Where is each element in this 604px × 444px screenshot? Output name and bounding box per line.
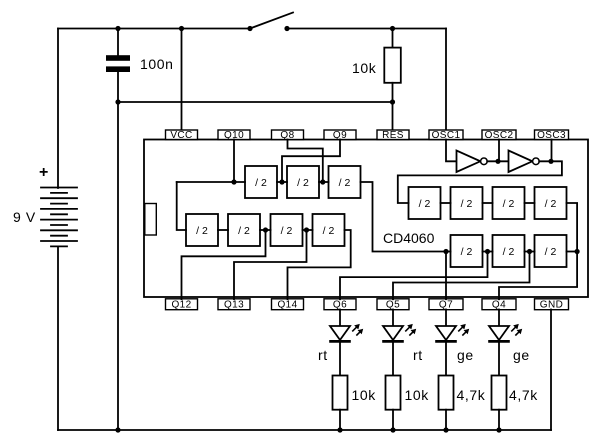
wire right junction down to Q4: [499, 252, 577, 300]
svg-text:Q12: Q12: [171, 300, 191, 311]
pin Q14: [272, 299, 304, 311]
wire Q5 pin to LED D2: [392, 310, 394, 327]
battery BT1: [41, 188, 77, 247]
svg-text:/ 2: / 2: [255, 177, 267, 189]
svg-text:/ 2: / 2: [196, 225, 208, 237]
divider stage E1: [409, 187, 441, 219]
node: junction M3/M4 to Q13: [304, 227, 309, 232]
divider stage T2: [287, 166, 319, 198]
svg-text:10k: 10k: [352, 387, 377, 403]
node: junction D3 column rail: [443, 427, 448, 432]
IC U1 CD4060 body: [144, 140, 588, 298]
wire M4 output to Q14: [288, 230, 351, 299]
wire R1 bottom to RES pin: [392, 83, 394, 130]
wire top rail left segment: [58, 28, 250, 30]
wire M3-M4 link: [303, 229, 313, 231]
wire rail corner down to OSC1: [445, 29, 447, 131]
svg-text:VCC: VCC: [170, 130, 192, 141]
pin RES: [377, 130, 409, 141]
node: junction D2 column rail: [390, 427, 395, 432]
resistor R4 4,7k: [439, 376, 454, 410]
pin Q9: [324, 130, 356, 141]
svg-text:/ 2: / 2: [503, 198, 515, 210]
wire E1-E2 link: [441, 202, 451, 204]
svg-text:/ 2: / 2: [419, 198, 431, 210]
pin Q4: [482, 299, 516, 311]
svg-text:100n: 100n: [140, 56, 174, 72]
wire LED D1 to R2: [339, 341, 341, 375]
wire E4 output down right side: [567, 203, 578, 252]
svg-text:Q14: Q14: [277, 300, 297, 311]
wire R3 to bottom rail: [392, 410, 394, 430]
divider stage M2: [228, 214, 260, 246]
svg-text:/ 2: / 2: [238, 225, 250, 237]
wire R5 to bottom rail: [498, 410, 500, 430]
pin VCC: [166, 130, 198, 141]
wire R2 to bottom rail: [339, 410, 341, 430]
node: junction Q10/T1: [231, 179, 236, 184]
resistor R3 10k: [386, 376, 401, 410]
wire junction F1/F2 down to Q6: [340, 252, 488, 300]
svg-text:rt: rt: [413, 347, 423, 363]
wire inverter output to feedback: [398, 161, 562, 203]
wire junction F2/F3 down to Q5: [393, 252, 530, 300]
node: junction ground rail: [115, 427, 120, 432]
divider stage T3: [329, 166, 361, 198]
svg-text:4,7k: 4,7k: [509, 387, 538, 403]
wire Q6 pin to LED D1: [339, 310, 341, 327]
svg-text:ge: ge: [513, 347, 530, 363]
wire left outer vertical (battery bottom lead): [57, 247, 59, 431]
svg-text:ge: ge: [457, 347, 474, 363]
wire junction M2/M3 down to Q12: [182, 230, 266, 299]
pin Q6: [324, 299, 356, 311]
node: junction T1/T2 to Q9: [279, 179, 284, 184]
svg-text:/ 2: / 2: [339, 177, 351, 189]
wire OSC2 drop: [498, 140, 500, 162]
pin Q7: [429, 299, 463, 311]
divider stage M4: [313, 214, 345, 246]
divider stage F3: [535, 235, 567, 267]
svg-text:/ 2: / 2: [461, 246, 473, 258]
svg-text:10k: 10k: [405, 387, 430, 403]
resistor R5 4,7k: [492, 376, 507, 410]
node: junction F1 input to Q7: [443, 249, 448, 254]
wire T2-T3 link: [319, 181, 329, 183]
pin OSC2: [482, 130, 516, 141]
svg-text:/ 2: / 2: [297, 177, 309, 189]
pin OSC1: [429, 130, 463, 141]
wire E3-E4 link: [525, 202, 535, 204]
divider stage T1: [245, 166, 277, 198]
divider stage M1: [186, 214, 218, 246]
wire Q7 pin to LED D3: [445, 310, 447, 327]
divider stage E4: [535, 187, 567, 219]
pin Q8: [272, 130, 304, 141]
node: junction F1/F2 to Q6: [485, 249, 490, 254]
node: junction right side: [575, 249, 580, 254]
svg-text:/ 2: / 2: [461, 198, 473, 210]
svg-text:Q13: Q13: [224, 300, 244, 311]
wire T3 output down to F row: [361, 182, 451, 252]
wire left outer vertical (battery top lead): [57, 29, 59, 189]
node: junction OSC2: [495, 159, 500, 164]
node: junction 10k on rail: [390, 26, 395, 31]
resistor R2 10k: [333, 376, 348, 410]
LED D2: [382, 324, 416, 342]
wire E2-E3 link: [483, 202, 493, 204]
svg-text:4,7k: 4,7k: [457, 387, 486, 403]
node: junction D1 column rail: [337, 427, 342, 432]
wire Q7 drop: [445, 252, 447, 300]
wire bottom rail: [58, 429, 551, 431]
wire T1-T2 link: [277, 181, 287, 183]
wire Q8 jog to T2/T3 junction: [288, 140, 323, 183]
wire Q10 drop to T1 input: [233, 140, 235, 183]
divider stage M3: [271, 214, 303, 246]
svg-text:/ 2: / 2: [281, 225, 293, 237]
inverter U1B: [509, 151, 540, 173]
svg-text:/ 2: / 2: [545, 246, 557, 258]
pin Q10: [218, 130, 250, 141]
pin Q13: [218, 299, 250, 311]
wire OSC1 to inverter input: [446, 140, 457, 162]
node: junction F2/F3 to Q5: [527, 249, 532, 254]
LED D3: [435, 324, 469, 342]
wire VCC drop: [181, 29, 183, 131]
pin Q5: [377, 299, 409, 311]
wire T1 input horizontal: [177, 181, 245, 183]
node: junction R1/RES/mid line: [390, 99, 395, 104]
divider stage F1: [451, 235, 483, 267]
wire mid horizontal to RES: [118, 101, 393, 103]
resistor R1 10k: [384, 48, 401, 83]
svg-text:/ 2: / 2: [545, 198, 557, 210]
svg-text:+: +: [39, 164, 49, 181]
svg-text:/ 2: / 2: [503, 246, 515, 258]
wire F3 output link: [567, 251, 578, 253]
svg-text:rt: rt: [318, 347, 328, 363]
LED D1: [329, 324, 363, 342]
node: junction cap bottom: [115, 99, 120, 104]
LED D4: [488, 324, 522, 342]
divider stage E3: [493, 187, 525, 219]
switch S1: [247, 13, 293, 32]
svg-text:10k: 10k: [352, 60, 377, 76]
oscillator element box on left edge: [145, 204, 157, 236]
wire F1-F2 link: [483, 251, 493, 253]
wire junction M3/M4 down to Q13: [234, 230, 307, 299]
wire GND pin to bottom rail: [550, 310, 552, 431]
pin Q12: [166, 299, 198, 311]
divider stage F2: [493, 235, 525, 267]
node: junction VCC on rail: [179, 26, 184, 31]
node: junction OSC3: [548, 159, 553, 164]
wire R4 to bottom rail: [445, 410, 447, 430]
svg-text:9 V: 9 V: [13, 209, 36, 225]
wire capacitor bottom / ground vertical: [117, 72, 119, 430]
svg-text:CD4060: CD4060: [383, 230, 435, 246]
inverter U1A: [457, 151, 488, 173]
wire OSC3 drop: [551, 140, 553, 162]
pin OSC3: [535, 130, 569, 141]
node: junction D4 column rail: [496, 427, 501, 432]
wire LED D3 to R4: [445, 341, 447, 375]
wire M1-M2 link: [218, 229, 228, 231]
resistor R1 top lead: [392, 29, 394, 48]
wire top rail right segment: [287, 28, 446, 30]
svg-text:RES: RES: [382, 130, 404, 141]
node: junction cap top on rail: [115, 26, 120, 31]
capacitor C1: [106, 55, 130, 72]
wire LED D4 to R5: [498, 341, 500, 375]
svg-text:/ 2: / 2: [323, 225, 335, 237]
wire Q4 pin to LED D4: [498, 310, 500, 327]
wire Q9 jog to T1/T2 junction: [282, 140, 340, 183]
wire F2-F3 link: [525, 251, 535, 253]
node: junction M2/M3 to Q12: [263, 227, 268, 232]
divider stage E2: [451, 187, 483, 219]
pin GND: [535, 299, 569, 311]
capacitor C1 top lead: [117, 29, 119, 56]
wire left feed down: [177, 182, 186, 230]
wire inverter link: [487, 160, 508, 162]
wire LED D2 to R3: [392, 341, 394, 375]
wire M2-M3 link: [260, 229, 271, 231]
node: junction T2/T3 to Q8: [320, 179, 325, 184]
